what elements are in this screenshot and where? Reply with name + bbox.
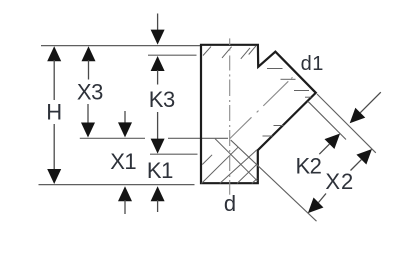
X3 top arrow	[82, 46, 96, 61]
main pipe axis center line	[229, 38, 231, 194]
K2 lower arrow with tail	[325, 133, 341, 149]
H bottom arrow	[53, 124, 55, 170]
svg-text:K3: K3	[149, 87, 175, 112]
top band hatch ticks	[203, 47, 211, 56]
K2 upper arrow with tail	[360, 92, 381, 113]
X2 lower arrow	[319, 194, 327, 203]
svg-text:H: H	[46, 100, 61, 125]
K1 bottom arrow	[151, 186, 165, 201]
svg-text:X1: X1	[110, 149, 136, 174]
svg-text:K2: K2	[296, 154, 322, 179]
line A (X3/X1 boundary)	[80, 137, 145, 139]
K3 up arrow under SL	[151, 56, 165, 71]
svg-text:d: d	[224, 191, 236, 216]
H top arrow	[47, 46, 61, 61]
X3 bottom arrow	[87, 104, 89, 124]
top line TL	[41, 45, 200, 47]
X1 top arrow	[124, 111, 126, 124]
svg-text:K1: K1	[147, 158, 173, 183]
L1b: inner mouth extension	[308, 101, 346, 139]
bottom region hatch strokes	[202, 147, 239, 183]
L1: outer wall extension	[317, 94, 376, 153]
K3 bottom arrow onto line B	[157, 112, 159, 141]
branch cross dash-dot center line	[230, 77, 293, 138]
L2: lower mouth extension	[231, 140, 317, 221]
socket line SL	[148, 54, 197, 56]
left wall hatch tick	[202, 155, 212, 165]
branch wall horizontal hatch ticks	[267, 68, 283, 70]
X1 bottom arrow	[118, 186, 132, 201]
bottom line BL	[39, 184, 195, 186]
svg-text:X2: X2	[325, 169, 354, 194]
line B (K1 top)	[150, 153, 198, 155]
junction edge thin 45-degree line	[215, 139, 257, 181]
X2 upper arrow	[356, 149, 372, 165]
svg-text:d1: d1	[301, 53, 324, 75]
svg-text:X3: X3	[77, 80, 103, 105]
top outside down-arrow above TL	[157, 14, 159, 32]
